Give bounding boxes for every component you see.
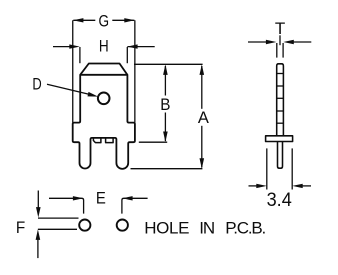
svg-text:3.4: 3.4 <box>267 188 292 210</box>
svg-text:H: H <box>99 37 109 56</box>
svg-text:F: F <box>16 218 25 237</box>
svg-text:G: G <box>99 12 110 31</box>
svg-text:T: T <box>275 19 285 38</box>
svg-text:B: B <box>160 95 170 114</box>
svg-text:A: A <box>198 108 210 127</box>
svg-text:P.C.B.: P.C.B. <box>225 219 265 238</box>
svg-text:HOLE: HOLE <box>144 219 189 238</box>
svg-text:D: D <box>32 75 41 94</box>
svg-text:IN: IN <box>199 219 214 238</box>
svg-text:E: E <box>96 190 106 208</box>
